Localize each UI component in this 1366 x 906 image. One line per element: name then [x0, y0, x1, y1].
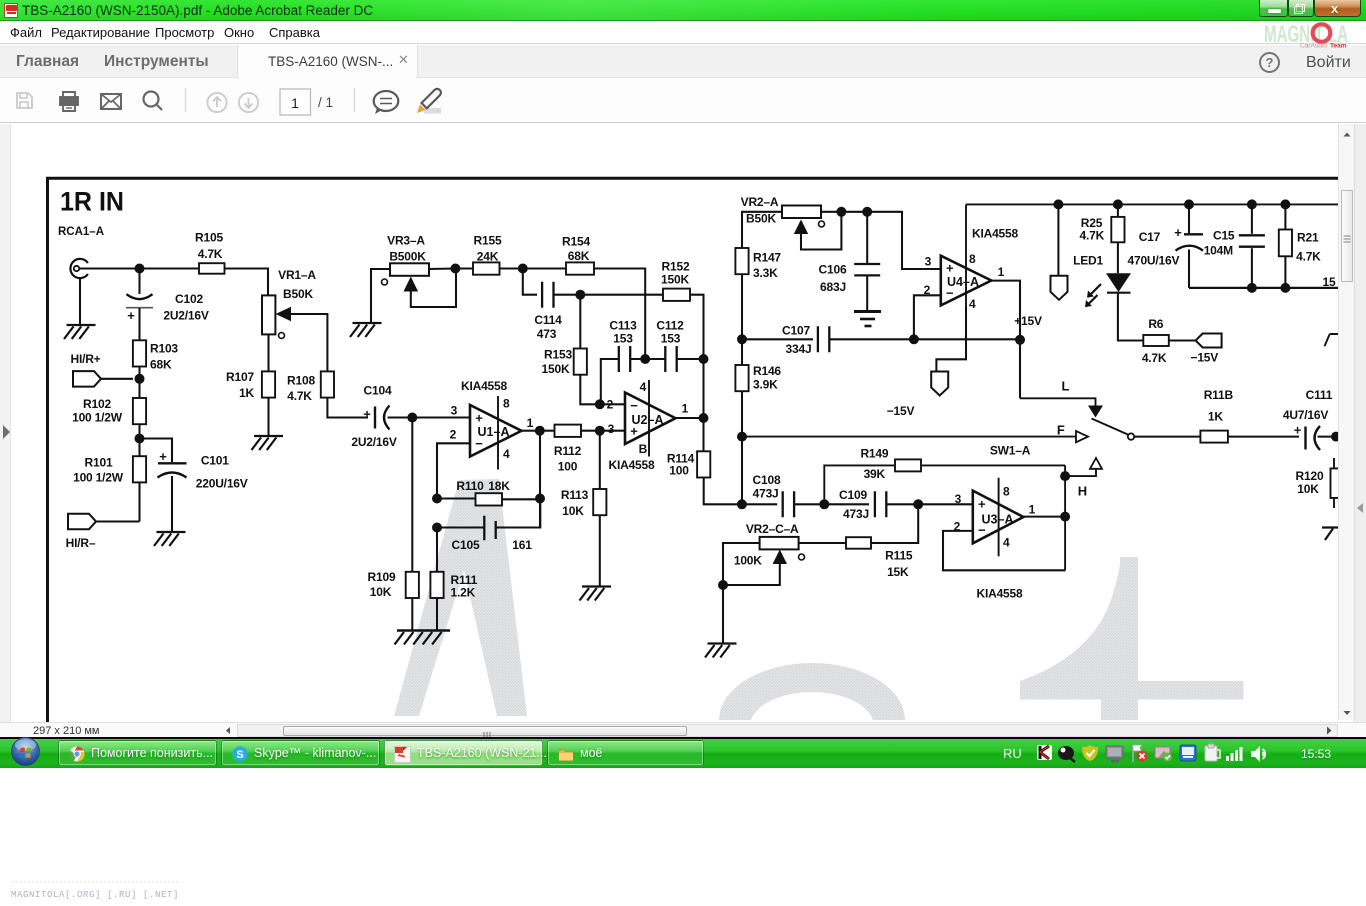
value label R6 4.7K [1142, 317, 1167, 365]
wire [741, 274, 743, 365]
svg-text:10K: 10K [562, 504, 584, 518]
wire [741, 391, 743, 436]
svg-text:1: 1 [291, 95, 299, 111]
op-amp U3 [973, 491, 1024, 544]
value label R111 1.2K [451, 573, 478, 600]
op-amp U1 [470, 405, 522, 457]
svg-text:SW1–A: SW1–A [990, 444, 1031, 458]
svg-text:R149: R149 [860, 446, 888, 460]
node junction [1015, 335, 1025, 345]
wire [411, 418, 413, 572]
wire [437, 497, 476, 499]
svg-text:+: + [1174, 225, 1182, 240]
value label C107 334J [782, 324, 811, 357]
wire F line [742, 436, 1076, 438]
svg-text:KIA4558: KIA4558 [609, 458, 655, 472]
wire stub right edge [1325, 334, 1339, 346]
wire [411, 269, 456, 308]
svg-text:15: 15 [1323, 275, 1336, 289]
wire R149 to switch column [921, 464, 1065, 466]
diode LED1 [1085, 273, 1131, 307]
svg-text:C111: C111 [1306, 388, 1333, 402]
wire [886, 503, 973, 505]
node junction [718, 580, 728, 590]
op-amp U4 [941, 256, 992, 306]
node junction [432, 523, 442, 533]
op-amp U2 [625, 393, 676, 445]
wire [1284, 256, 1286, 288]
node junction [1247, 283, 1257, 293]
resistor R112 [555, 425, 582, 437]
svg-text:2U2/16V: 2U2/16V [351, 435, 396, 449]
svg-text:68K: 68K [568, 249, 590, 263]
wire [79, 267, 199, 269]
svg-text:39K: 39K [864, 467, 886, 481]
resistor R109 [406, 572, 419, 598]
capacitor C102 [126, 294, 153, 323]
wire [1251, 248, 1253, 288]
wire [1251, 204, 1253, 233]
wire [225, 269, 269, 296]
wire [388, 416, 471, 418]
wire [267, 398, 269, 436]
svg-text:1: 1 [998, 265, 1005, 279]
svg-text:+: + [1294, 423, 1302, 438]
watermark letter arc [719, 663, 905, 720]
resistor R152 [663, 289, 690, 301]
wire [741, 437, 743, 505]
svg-text:R115: R115 [885, 549, 913, 563]
svg-text:VR2–A: VR2–A [741, 195, 779, 209]
svg-text:VR2–C–A: VR2–C–A [746, 522, 799, 536]
svg-text:R146: R146 [753, 364, 781, 378]
wire [690, 295, 704, 418]
svg-text:HI/R+: HI/R+ [70, 352, 100, 366]
svg-text:C105: C105 [452, 538, 480, 552]
svg-text:B50K: B50K [746, 212, 776, 226]
value label R110 18K [456, 479, 510, 493]
svg-text:68K: 68K [150, 358, 172, 372]
resistor R107 [262, 371, 275, 397]
wire [437, 443, 470, 498]
svg-text:C109: C109 [839, 488, 867, 502]
svg-text:473: 473 [537, 327, 557, 341]
capacitor C107 [818, 326, 829, 352]
svg-text:C104: C104 [364, 384, 392, 398]
node junction [535, 426, 545, 436]
svg-text:L: L [1062, 379, 1070, 394]
svg-text:B50K: B50K [283, 287, 313, 301]
svg-text:U2–A: U2–A [632, 413, 664, 427]
wire [1134, 436, 1200, 438]
wire [1117, 242, 1119, 273]
wire [496, 499, 541, 528]
wire [1057, 204, 1059, 275]
svg-text:683J: 683J [820, 280, 846, 294]
ground [580, 587, 612, 601]
wire [936, 305, 966, 371]
wiper arrow VR2-C-A [773, 550, 805, 565]
resistor R103 [133, 340, 146, 366]
svg-text:−15V: −15V [887, 404, 915, 418]
resistor R153 [574, 349, 587, 375]
svg-text:100K: 100K [734, 554, 762, 568]
value label C101 220U/16V [196, 454, 248, 491]
svg-text:+: + [946, 261, 954, 276]
svg-text:R102: R102 [83, 397, 111, 411]
svg-text:4.7K: 4.7K [1296, 249, 1321, 263]
capacitor C17 [1174, 225, 1203, 251]
svg-text:334J: 334J [786, 342, 812, 356]
wire [794, 503, 869, 505]
svg-text:C112: C112 [656, 319, 684, 333]
svg-text:S: S [236, 749, 243, 761]
wire [594, 269, 645, 360]
svg-text:100: 100 [669, 464, 689, 478]
wire [79, 278, 81, 325]
value label R149 39K [860, 446, 888, 481]
node junction [595, 426, 605, 436]
svg-text:B500K: B500K [389, 250, 426, 264]
node junction [1113, 199, 1123, 209]
svg-text:104M: 104M [1204, 243, 1233, 257]
resistor R111 [430, 572, 443, 598]
svg-text:4.7K: 4.7K [1142, 351, 1167, 365]
node junction [575, 290, 585, 300]
power flag -15V right [1196, 334, 1222, 348]
svg-text:C108: C108 [753, 473, 781, 487]
svg-text:3.9K: 3.9K [753, 377, 778, 391]
capacitor C101 [158, 449, 187, 478]
wire [500, 267, 567, 269]
svg-text:+: + [127, 308, 135, 323]
svg-text:C17: C17 [1139, 230, 1161, 244]
wire [799, 542, 846, 544]
svg-text:153: 153 [661, 332, 681, 346]
value label R103 68K [150, 342, 178, 372]
node junction [135, 374, 145, 384]
node junction [836, 207, 846, 217]
svg-text:R21: R21 [1297, 231, 1319, 245]
svg-text:10K: 10K [370, 585, 392, 599]
node junction [1331, 432, 1341, 442]
svg-text:R153: R153 [544, 348, 572, 362]
label VR1-A B50K [278, 268, 316, 301]
svg-text:220U/16V: 220U/16V [196, 477, 248, 491]
svg-text:10K: 10K [1297, 482, 1319, 496]
svg-text:RCA1–A: RCA1–A [58, 226, 104, 238]
value label R113 10K [561, 488, 589, 518]
wire [523, 269, 537, 295]
value label R105 4.7K [195, 231, 223, 262]
svg-text:3: 3 [451, 404, 458, 418]
wire [723, 543, 760, 644]
wire [742, 338, 813, 340]
svg-text:Team: Team [1330, 43, 1347, 50]
svg-text:+15V: +15V [1014, 314, 1042, 328]
resistor R6 [1143, 335, 1169, 346]
svg-text:C101: C101 [201, 454, 229, 468]
svg-text:4: 4 [503, 447, 510, 461]
ground [64, 325, 96, 339]
svg-text:24K: 24K [477, 250, 499, 264]
pin 8 U1 [498, 396, 510, 470]
svg-text:4: 4 [1003, 536, 1010, 550]
wire [676, 417, 704, 419]
wire [704, 478, 742, 505]
wire [702, 418, 704, 451]
svg-text:150K: 150K [542, 362, 570, 376]
signal ground C106 [854, 312, 881, 327]
svg-text:C107: C107 [782, 324, 810, 338]
wire [601, 359, 619, 404]
value label C114 473 [534, 313, 562, 341]
node junction [819, 499, 829, 509]
wire [327, 398, 368, 418]
svg-text:KIA4558: KIA4558 [972, 227, 1018, 241]
value label R107 1K [226, 370, 254, 400]
node junction [737, 432, 747, 442]
svg-text:B: B [639, 442, 648, 456]
wire [101, 378, 133, 380]
value label C113 153 [609, 319, 637, 346]
svg-text:U1–A: U1–A [478, 425, 510, 439]
resistor R114 [697, 451, 710, 477]
svg-text:4.7K: 4.7K [1080, 229, 1105, 243]
svg-text:+: + [363, 407, 371, 422]
wire [140, 439, 173, 463]
wire [1118, 293, 1143, 341]
value label R146 3.9K [753, 364, 781, 392]
node junction [407, 413, 417, 423]
svg-text:4.7K: 4.7K [198, 247, 223, 261]
svg-text:F: F [1057, 423, 1065, 438]
svg-text:U4–A: U4–A [947, 275, 979, 289]
svg-text:100: 100 [558, 460, 578, 474]
node junction [1060, 512, 1070, 522]
node junction [135, 434, 145, 444]
wire [138, 424, 140, 456]
svg-text:18K: 18K [488, 479, 510, 493]
pin 4 U2 [640, 380, 649, 457]
wire [1188, 204, 1190, 234]
resistor R155 [473, 262, 500, 274]
wire [522, 430, 555, 432]
node junction [450, 264, 460, 274]
svg-text:R112: R112 [554, 444, 582, 458]
wire [412, 598, 437, 631]
resistor R113 [593, 489, 606, 515]
svg-text:2: 2 [607, 397, 614, 411]
potentiometer VR2-A [782, 206, 821, 219]
resistor R110 [476, 493, 503, 505]
svg-text:2: 2 [450, 428, 457, 442]
svg-text:+: + [475, 410, 483, 425]
wire [1023, 516, 1065, 518]
value label R108 4.7K [287, 374, 315, 404]
svg-text:R120: R120 [1296, 469, 1324, 483]
node junction [909, 334, 919, 344]
node junction [135, 264, 145, 274]
wire [601, 403, 625, 405]
wire [1188, 250, 1190, 288]
wire [1169, 339, 1196, 341]
capacitor C105 [484, 516, 495, 541]
node junction [1060, 471, 1070, 481]
svg-text:100 1/2W: 100 1/2W [73, 471, 124, 485]
node junction [1184, 199, 1194, 209]
node junction [699, 413, 709, 423]
wire [436, 528, 438, 572]
wire L line [1020, 398, 1096, 405]
node junction [862, 207, 872, 217]
value label R25 4.7K [1080, 216, 1105, 243]
svg-text:R105: R105 [195, 231, 223, 245]
svg-text:4: 4 [969, 297, 976, 311]
svg-text:15K: 15K [887, 565, 909, 579]
wire [1228, 436, 1299, 438]
svg-text:1.2K: 1.2K [451, 586, 476, 600]
wire [866, 275, 868, 310]
value label R114 100 [667, 452, 695, 478]
svg-text:R6: R6 [1148, 317, 1163, 331]
svg-text:2U2/16V: 2U2/16V [163, 309, 208, 323]
potentiometer VR3-A [390, 263, 429, 276]
svg-text:R147: R147 [753, 251, 781, 265]
node junction [1247, 199, 1257, 209]
svg-text:KIA4558: KIA4558 [461, 379, 507, 393]
resistor R11B [1200, 431, 1228, 443]
value label C112 153 [656, 319, 684, 346]
svg-text:R108: R108 [287, 374, 315, 388]
node junction [535, 494, 545, 504]
value label C106 683J [819, 263, 847, 295]
svg-text:161: 161 [512, 538, 532, 552]
svg-text:LED1: LED1 [1073, 254, 1103, 268]
capacitor C106 [854, 264, 880, 275]
svg-text:+: + [978, 496, 986, 511]
svg-text:4: 4 [640, 380, 647, 394]
wire [1117, 204, 1119, 217]
schematic page frame border [48, 178, 1339, 722]
wire R149 branch [824, 465, 895, 504]
wire [742, 212, 782, 248]
svg-text:H: H [1078, 484, 1087, 499]
value label C102 2U2/16V [163, 292, 208, 323]
resistor R149 [895, 459, 921, 471]
resistor R115 [846, 537, 871, 549]
power flag at LED branch [1051, 276, 1068, 300]
ground [705, 644, 737, 658]
svg-text:−: − [630, 398, 638, 413]
label VR2-A B50K [741, 195, 779, 226]
svg-text:HI/R–: HI/R– [66, 536, 96, 550]
wire [580, 375, 600, 405]
svg-text:+: + [159, 449, 167, 464]
node junction [737, 499, 747, 509]
resistor R105 [199, 263, 225, 274]
node junction [699, 354, 709, 364]
value label C111 4U7/16V [1283, 388, 1333, 422]
connector HI/R- [68, 514, 96, 529]
svg-text:C102: C102 [175, 292, 203, 306]
svg-text:R110: R110 [456, 479, 484, 493]
wire [502, 498, 540, 500]
value label R154 68K [562, 235, 590, 264]
switch SW1-A [1076, 406, 1134, 469]
ground [154, 532, 186, 546]
resistor R108 [321, 371, 334, 397]
node junction [913, 499, 923, 509]
wire [742, 503, 777, 505]
wiper arrow VR3-A [382, 277, 419, 292]
svg-text:C106: C106 [819, 263, 847, 277]
capacitor C113 [619, 346, 630, 372]
svg-text:U3–A: U3–A [982, 512, 1014, 526]
svg-text:473J: 473J [843, 507, 869, 521]
wire [437, 526, 484, 528]
svg-text:1R IN: 1R IN [60, 187, 124, 217]
svg-text:R11B: R11B [1204, 388, 1234, 402]
wire [871, 504, 918, 543]
svg-text:473J: 473J [753, 487, 779, 501]
svg-text:R101: R101 [85, 456, 113, 470]
svg-text:1K: 1K [1208, 410, 1223, 424]
capacitor C104 [363, 406, 389, 430]
wire [138, 367, 140, 399]
capacitor C112 [665, 346, 676, 372]
ground [395, 631, 451, 645]
potentiometer VR2-C-A [760, 537, 799, 550]
ground [252, 436, 284, 450]
svg-text:1: 1 [682, 402, 689, 416]
node junction [1053, 199, 1063, 209]
connector RCA1-A jack [70, 259, 87, 278]
wire [943, 531, 1065, 570]
resistor R146 [735, 365, 748, 391]
svg-text:KIA4558: KIA4558 [977, 587, 1023, 601]
svg-text:3.3K: 3.3K [753, 266, 778, 280]
wire [829, 338, 1020, 340]
svg-text:VR3–A: VR3–A [387, 234, 425, 248]
svg-text:8: 8 [969, 252, 976, 266]
ground partial right edge [1322, 528, 1338, 541]
potentiometer VR1-A [262, 295, 291, 338]
wire +15V rail [966, 203, 1338, 205]
capacitor C114 [542, 282, 553, 308]
svg-text:150K: 150K [661, 273, 689, 287]
value label R155 24K [474, 234, 502, 264]
connector HI/R+ [73, 371, 101, 387]
node junction [1280, 283, 1290, 293]
resistor R101 [133, 456, 146, 482]
wire [1318, 436, 1339, 438]
node junction [595, 399, 605, 409]
label VR2-C-A 100K [734, 522, 799, 568]
value label R112 100 [554, 444, 582, 474]
value label R115 15K [885, 549, 913, 580]
node junction [737, 334, 747, 344]
pin 8 U3 [999, 478, 1010, 557]
value label R11B 1K [1204, 388, 1234, 423]
svg-text:R152: R152 [662, 260, 690, 274]
wire [630, 358, 665, 360]
value label R152 150K [661, 260, 690, 287]
svg-text:R113: R113 [561, 488, 589, 502]
svg-text:4U7/16V: 4U7/16V [1283, 408, 1328, 422]
wire [801, 212, 841, 250]
resistor R102 [133, 398, 146, 424]
